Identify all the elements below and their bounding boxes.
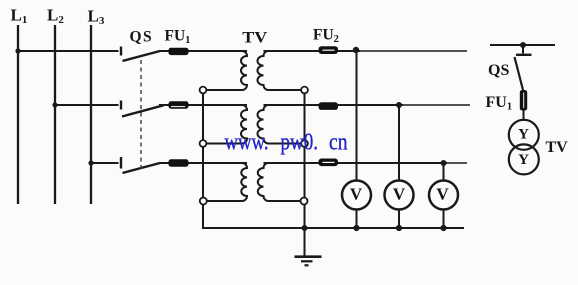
svg-text:Y: Y (518, 126, 529, 142)
svg-text:V: V (393, 185, 406, 204)
svg-text:V: V (436, 185, 449, 204)
svg-text:QS: QS (130, 28, 154, 45)
svg-text:www.: www. (225, 129, 269, 156)
svg-text:L2: L2 (47, 5, 64, 26)
svg-text:Y: Y (518, 152, 529, 168)
svg-text:L1: L1 (11, 5, 28, 26)
svg-text:FU1: FU1 (165, 28, 191, 47)
svg-text:V: V (350, 185, 363, 204)
svg-text:TV: TV (546, 139, 569, 156)
svg-text:QS: QS (488, 62, 509, 79)
svg-text:FU1: FU1 (486, 94, 513, 113)
svg-text:cn: cn (329, 129, 348, 156)
svg-text:TV: TV (242, 29, 268, 46)
svg-text:L3: L3 (88, 6, 105, 27)
svg-text:FU2: FU2 (313, 27, 339, 46)
svg-text:pw0.: pw0. (281, 129, 319, 156)
